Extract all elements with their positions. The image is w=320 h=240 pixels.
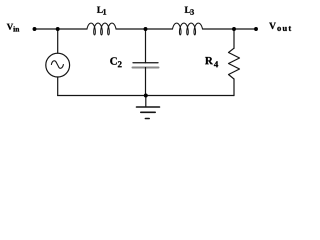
label Vout "V"	[269, 23, 276, 29]
inductor L1	[87, 23, 116, 35]
label Vin "V"	[7, 24, 13, 30]
wire: source top lead	[57, 29, 59, 53]
label Vin subscript "in"	[13, 26, 19, 31]
junction: capacitor top	[144, 27, 148, 31]
wire: resistor top lead	[233, 29, 235, 48]
junction: source top	[56, 27, 60, 31]
label R4 "R"	[205, 57, 213, 64]
label L3 subscript "3"	[190, 9, 194, 15]
sine wave inside source	[51, 61, 63, 69]
wire: L1 to L3	[116, 28, 173, 30]
junction: ground node	[144, 94, 148, 98]
wire: capacitor top lead	[145, 29, 147, 63]
label R4 subscript "4"	[214, 61, 218, 67]
ground bar 3	[145, 118, 149, 120]
ground stem	[145, 96, 147, 107]
wire: resistor bottom lead	[233, 79, 235, 96]
label L3 "L"	[185, 7, 191, 13]
label L1 "L"	[97, 7, 103, 13]
wire: Vin terminal to L1	[35, 28, 88, 30]
label L1 subscript "1"	[103, 9, 106, 14]
resistor R4 zigzag	[229, 48, 240, 79]
ground bar 2	[141, 111, 155, 113]
junction: resistor top	[232, 27, 236, 31]
capacitor C2 bottom plate (gray)	[133, 67, 159, 69]
ground bar 1	[137, 106, 160, 108]
wire: bottom rail	[58, 95, 234, 97]
node: Vin terminal dot	[33, 27, 37, 31]
inductor L3	[173, 23, 203, 35]
capacitor C2 top plate	[133, 62, 158, 64]
node: Vout terminal dot	[254, 27, 258, 31]
label C2 subscript "2"	[118, 61, 122, 67]
wire: source bottom lead	[57, 77, 59, 96]
label Vout subscript "out"	[277, 26, 291, 31]
label C2 "C"	[110, 57, 117, 64]
source V1 circle	[46, 53, 70, 77]
wire: capacitor bottom lead	[145, 68, 147, 96]
wire: L3 to Vout terminal	[203, 28, 257, 30]
